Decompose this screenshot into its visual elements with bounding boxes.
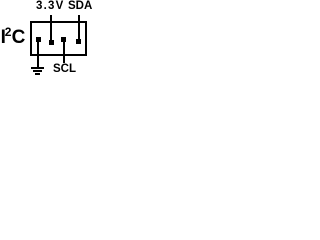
- label 3.3V: [36, 1, 64, 13]
- pin 4 pad SCL: [61, 37, 66, 42]
- pin 2 wire GND: [37, 41, 39, 67]
- label SDA: [68, 1, 92, 13]
- pin 1 pad 3.3V: [49, 40, 54, 45]
- label SCL: [53, 64, 76, 76]
- pin 3 pad SDA: [76, 39, 81, 44]
- ground bar 2: [33, 70, 42, 72]
- label I2C part I: [1, 28, 6, 47]
- pin 1 wire 3.3V: [50, 15, 52, 41]
- pin 4 wire SCL: [63, 41, 65, 63]
- ground bar 3: [35, 73, 40, 75]
- ground bar 1: [31, 67, 44, 69]
- connector J1 body: [30, 21, 87, 56]
- pin 2 pad GND: [36, 37, 41, 42]
- pin 3 wire SDA: [78, 15, 80, 40]
- label I2C part C: [12, 28, 26, 47]
- label I2C superscript 2: [5, 26, 12, 38]
